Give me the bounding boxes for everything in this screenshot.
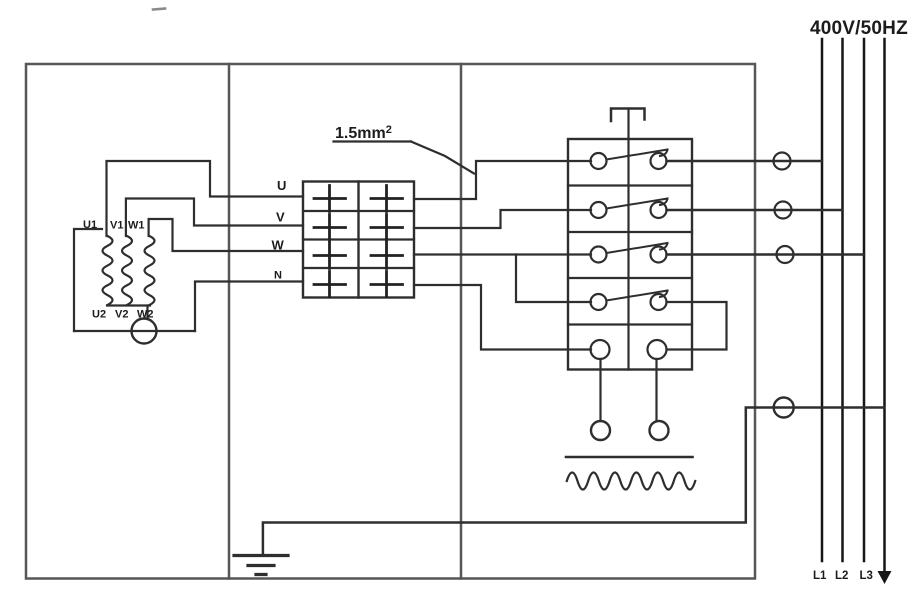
terminal cross W-left [314,243,346,269]
terminal circle row2 [775,202,792,219]
svg-text:U2: U2 [92,309,106,321]
switch contact row2 left [591,202,607,218]
winding U1-U2 [103,236,113,305]
svg-text:U1: U1 [83,219,97,231]
svg-text:1.5mm2: 1.5mm2 [335,124,392,142]
heater lead right [655,359,657,421]
terminal block mid divider [357,182,359,298]
terminal cross U-left [314,186,346,212]
wire switch row3 to L3 [667,253,865,255]
ground symbol [234,556,288,575]
switch contact row5 right [648,340,667,359]
svg-text:V: V [276,210,285,225]
terminal cross V-right [371,215,403,241]
svg-text:U: U [277,178,286,193]
svg-text:400V/50HZ: 400V/50HZ [810,18,908,39]
switch row divider 4 [568,323,692,325]
switch contact row5 left [591,340,610,359]
terminal cross N-right [371,272,403,297]
switch contact row3 right [651,247,667,263]
wire terminal W to switch row3 [414,253,591,255]
switch contact row4 right [651,294,667,310]
earth wire [263,408,884,556]
wire row4 to row5 loop [667,302,727,350]
svg-text:W2: W2 [137,309,154,321]
svg-text:L3: L3 [860,570,873,582]
switch blade row3 [607,243,668,253]
wire star point to terminal N [195,282,303,332]
switch row divider 3 [568,277,692,279]
supply line PE/N [883,39,886,573]
terminal block outline [303,182,414,298]
terminal cross U-right [371,186,403,212]
svg-text:N: N [274,270,282,282]
switch contact row1 left [591,153,607,169]
switch row divider 2 [568,231,692,233]
terminal cross V-left [314,215,346,241]
svg-text:L1: L1 [813,570,827,582]
terminal block row line 2 [303,238,414,240]
heater plate line [566,456,693,459]
supply line L1 [821,39,824,561]
star point stub [146,306,148,320]
wire terminal V to switch row2 [414,210,591,228]
switch actuator bracket [611,109,645,122]
wire terminal U to switch row1 [414,161,591,199]
switch blade row1 [607,150,668,160]
enclosure frame [26,64,755,579]
winding V1-V2 [122,236,132,305]
switch block outline [568,139,692,370]
switch contact row3 left [591,247,607,263]
motor box bottom edge [74,330,195,332]
svg-text:L2: L2 [835,570,848,582]
switch contact row1 right [651,153,667,169]
branch W to switch row4 [516,255,591,303]
supply line L2 [841,39,844,561]
terminal circle row1 [774,153,791,170]
wire V1 to terminal V [126,199,303,237]
switch actuator shaft [627,110,629,370]
terminal cross N-left [314,272,346,297]
svg-text:W1: W1 [128,220,145,232]
svg-text:W: W [272,238,285,253]
svg-text:V2: V2 [115,309,128,321]
motor box left edge [74,229,102,331]
heater element wave [567,473,695,490]
wire U1 to terminal U [107,161,304,236]
scan smudge [153,9,165,10]
section divider 2 [460,64,463,579]
callout underline [334,140,412,142]
switch row divider 1 [568,184,692,186]
terminal circle row3 [777,246,794,263]
wire switch row1 to L1 [667,160,823,162]
heater terminal left [591,421,610,440]
callout leader line [411,142,474,174]
switch blade row4 [607,291,668,301]
supply line L3 [863,39,866,561]
terminal cross W-right [371,243,403,269]
switch contact row4 left [591,294,607,310]
PE arrow [878,571,892,584]
switch contact row2 right [651,202,667,218]
terminal block row line 1 [303,210,414,212]
motor star-point circle [132,319,157,344]
svg-text:V1: V1 [110,220,123,232]
wire W1 to terminal W [149,219,303,251]
neutral terminal circle [774,398,794,418]
terminal block row line 3 [303,267,414,269]
heater terminal right [650,421,669,440]
winding W1-W2 [145,236,155,305]
switch blade row2 [607,199,668,209]
winding bottom bus [107,304,150,306]
heater lead left [599,359,601,421]
section divider 1 [228,64,231,579]
wire terminal N to switch row5 [414,285,591,350]
wire switch row2 to L2 [667,209,843,211]
